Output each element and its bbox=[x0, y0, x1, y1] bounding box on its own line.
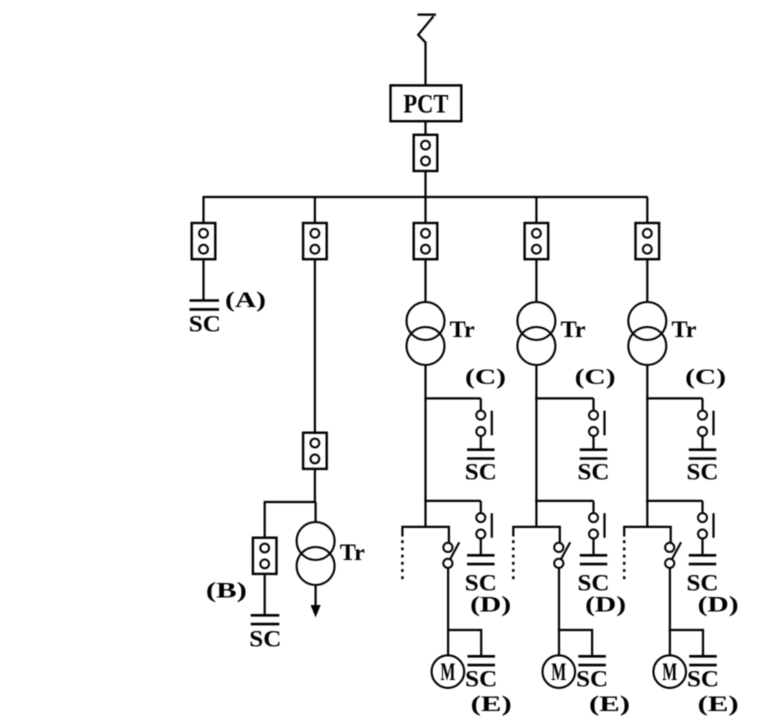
label (B) bbox=[206, 578, 247, 603]
value label SC of SC3c bbox=[465, 460, 497, 485]
capacitor SC3d bbox=[467, 555, 495, 564]
dotted guide line of contactor K3 bbox=[401, 540, 404, 581]
label (C) of branch 4 bbox=[575, 364, 616, 389]
value label SC of SC5c bbox=[687, 460, 719, 485]
node B branch wire bbox=[265, 502, 316, 538]
svg-text:SC: SC bbox=[576, 667, 608, 692]
svg-text:SC: SC bbox=[189, 311, 221, 336]
transformer Tr5 bbox=[628, 302, 666, 365]
label (A) bbox=[225, 287, 266, 312]
capacitor SC5c bbox=[689, 450, 717, 459]
contactor switch K5 bbox=[665, 542, 681, 568]
capacitor SC4e bbox=[578, 656, 606, 665]
circuit breaker CB5 bbox=[636, 223, 660, 259]
capacitor SC4c bbox=[580, 450, 608, 459]
wire to capacitor SC4d bbox=[592, 539, 594, 557]
switch S5d bbox=[698, 501, 714, 539]
wire contactor K3 to node E3 bbox=[447, 568, 449, 632]
capacitor SCB bbox=[251, 615, 280, 624]
value label SC of SC3d bbox=[465, 571, 497, 596]
bracket bar of contactor K3 bbox=[402, 527, 449, 543]
value label SC of SCB bbox=[249, 626, 281, 651]
wire bus to breaker CB5 bbox=[646, 197, 648, 224]
supply zigzag symbol bbox=[417, 15, 436, 43]
wire node E5 to motor M5 bbox=[669, 630, 671, 656]
svg-text:(D): (D) bbox=[585, 591, 626, 616]
svg-text:(A): (A) bbox=[225, 287, 266, 312]
label (C) of branch 5 bbox=[685, 364, 726, 389]
svg-text:M: M bbox=[440, 659, 455, 686]
circuit breaker CB2c bbox=[253, 538, 277, 574]
svg-text:PCT: PCT bbox=[403, 89, 448, 118]
svg-text:Tr: Tr bbox=[561, 317, 586, 342]
power centre transformer box PCT bbox=[391, 85, 462, 121]
svg-text:SC: SC bbox=[687, 460, 719, 485]
svg-text:(E): (E) bbox=[698, 691, 739, 716]
switch S5c bbox=[698, 398, 714, 436]
wire breaker CB2b to node B bbox=[314, 469, 316, 503]
node E4 branch wire bbox=[558, 630, 592, 656]
wire bus to breaker CB3 bbox=[424, 197, 426, 224]
node D4 branch wire bbox=[535, 500, 593, 502]
value label SC of SCA bbox=[189, 311, 221, 336]
svg-text:SC: SC bbox=[465, 460, 497, 485]
capacitor SCA bbox=[190, 301, 220, 310]
wire node B to transformer Tr2 bbox=[315, 502, 317, 523]
capacitor SC3e bbox=[467, 656, 495, 665]
contactor switch K3 bbox=[443, 542, 459, 568]
label (E) of branch 4 bbox=[589, 691, 630, 716]
wire node D3 to bracket bbox=[424, 501, 426, 528]
wire to capacitor SC5d bbox=[701, 539, 703, 557]
wire to capacitor SC3d bbox=[480, 539, 482, 557]
transformer Tr2 bbox=[297, 522, 335, 585]
circuit breaker CB2 bbox=[303, 223, 327, 259]
svg-text:M: M bbox=[551, 659, 566, 686]
value label SC of SC4d bbox=[578, 571, 610, 596]
node C3 branch wire bbox=[424, 397, 480, 399]
wire to capacitor SC4c bbox=[592, 436, 594, 451]
wire breaker CB4 to transformer Tr4 bbox=[535, 259, 537, 303]
label (D) of branch 3 bbox=[470, 591, 511, 616]
switch S3d bbox=[476, 501, 492, 539]
label (D) of branch 5 bbox=[698, 591, 739, 616]
node C5 branch wire bbox=[646, 397, 702, 399]
wire supply to PCT bbox=[424, 42, 426, 87]
node D3 branch wire bbox=[424, 500, 480, 502]
main bus bbox=[204, 196, 648, 198]
wire node C5 to node D5 bbox=[646, 398, 648, 502]
label (C) of branch 3 bbox=[465, 364, 506, 389]
wire transformer Tr5 to node C5 bbox=[646, 365, 648, 400]
wire breaker CB1 to capacitor SCA bbox=[202, 259, 204, 301]
circuit breaker CB2b bbox=[303, 433, 327, 469]
value label SC of SC3e bbox=[465, 667, 497, 692]
wire contactor K5 to node E5 bbox=[669, 568, 671, 632]
switch S4c bbox=[589, 398, 605, 436]
value label SC of SC5e bbox=[687, 667, 719, 692]
transformer Tr3 bbox=[407, 302, 445, 365]
circuit breaker CB3 bbox=[414, 223, 438, 259]
wire transformer Tr3 to node C3 bbox=[424, 365, 426, 400]
label Tr of transformer Tr4 bbox=[561, 317, 586, 342]
node C4 branch wire bbox=[535, 397, 593, 399]
label (E) of branch 5 bbox=[698, 691, 739, 716]
label (E) of branch 3 bbox=[471, 691, 512, 716]
label Tr of transformer Tr3 bbox=[450, 317, 475, 342]
wire node E3 to motor M3 bbox=[447, 630, 449, 656]
node E3 branch wire bbox=[447, 630, 481, 656]
wire breaker CB3 to transformer Tr3 bbox=[424, 259, 426, 303]
wire breaker CB2 to breaker CB2b bbox=[314, 259, 316, 434]
wire node D4 to bracket bbox=[535, 501, 537, 528]
wire node C4 to node D4 bbox=[535, 398, 537, 502]
bracket bar of contactor K5 bbox=[624, 527, 671, 543]
value label SC of SC5d bbox=[687, 571, 719, 596]
wire breaker CB0 to bus bbox=[424, 171, 426, 197]
svg-text:SC: SC bbox=[249, 626, 281, 651]
value label SC of SC4e bbox=[576, 667, 608, 692]
label (D) of branch 4 bbox=[585, 591, 626, 616]
wire breaker CB5 to transformer Tr5 bbox=[646, 259, 648, 303]
svg-text:(D): (D) bbox=[470, 591, 511, 616]
label Tr of transformer Tr5 bbox=[672, 317, 697, 342]
load arrow of transformer Tr2 bbox=[311, 585, 320, 616]
capacitor SC4d bbox=[580, 555, 608, 564]
wire node D5 to bracket bbox=[646, 501, 648, 528]
svg-text:Tr: Tr bbox=[672, 317, 697, 342]
contactor switch K4 bbox=[554, 542, 570, 568]
svg-text:(C): (C) bbox=[465, 364, 506, 389]
wire transformer Tr4 to node C4 bbox=[535, 365, 537, 400]
dotted guide line of contactor K5 bbox=[623, 540, 626, 581]
capacitor SC5e bbox=[689, 656, 717, 665]
switch S3c bbox=[476, 398, 492, 436]
switch S4d bbox=[589, 501, 605, 539]
transformer Tr4 bbox=[517, 302, 555, 365]
svg-text:SC: SC bbox=[687, 667, 719, 692]
circuit breaker CB0 bbox=[414, 135, 438, 171]
wire node C3 to node D3 bbox=[424, 398, 426, 502]
wire to capacitor SC3c bbox=[480, 436, 482, 451]
wire PCT to breaker CB0 bbox=[424, 121, 426, 136]
svg-text:(E): (E) bbox=[589, 691, 630, 716]
wire bus to breaker CB2 bbox=[314, 196, 316, 224]
wire breaker CB2c to capacitor SCB bbox=[264, 574, 266, 616]
svg-text:(D): (D) bbox=[698, 591, 739, 616]
motor M3 bbox=[432, 655, 465, 688]
motor M4 bbox=[543, 655, 576, 688]
node E5 branch wire bbox=[669, 630, 703, 656]
motor M5 bbox=[653, 655, 686, 688]
svg-text:(B): (B) bbox=[206, 578, 247, 603]
node D5 branch wire bbox=[646, 500, 702, 502]
circuit breaker CB4 bbox=[525, 223, 549, 259]
capacitor SC3c bbox=[467, 450, 495, 459]
svg-text:(C): (C) bbox=[685, 364, 726, 389]
svg-text:(C): (C) bbox=[575, 364, 616, 389]
value label SC of SC4c bbox=[578, 460, 610, 485]
label Tr of transformer Tr2 bbox=[340, 540, 365, 565]
label PCT bbox=[403, 89, 448, 118]
wire contactor K4 to node E4 bbox=[558, 568, 560, 632]
circuit breaker CB1 bbox=[192, 223, 216, 259]
wire node E4 to motor M4 bbox=[558, 630, 560, 656]
svg-text:Tr: Tr bbox=[340, 540, 365, 565]
wire bus to breaker CB1 bbox=[202, 196, 204, 224]
svg-text:Tr: Tr bbox=[450, 317, 475, 342]
svg-text:(E): (E) bbox=[471, 691, 512, 716]
wire to capacitor SC5c bbox=[701, 436, 703, 451]
capacitor SC5d bbox=[689, 555, 717, 564]
svg-text:SC: SC bbox=[465, 667, 497, 692]
bracket bar of contactor K4 bbox=[513, 527, 560, 543]
wire bus to breaker CB4 bbox=[535, 197, 537, 224]
svg-text:SC: SC bbox=[578, 460, 610, 485]
dotted guide line of contactor K4 bbox=[512, 540, 515, 581]
svg-text:M: M bbox=[662, 659, 677, 686]
